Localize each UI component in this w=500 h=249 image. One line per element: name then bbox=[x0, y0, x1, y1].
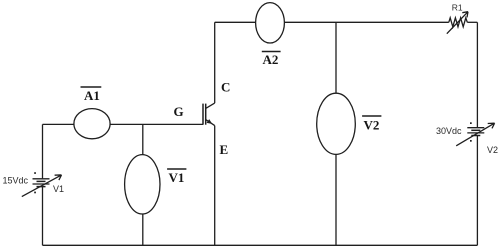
wire V1 branch vertical bbox=[142, 124, 144, 245]
transistor Q1 IGBT channel bar bbox=[205, 104, 207, 125]
label V2 overline bbox=[362, 115, 381, 117]
dc source V2 plus tick bbox=[470, 122, 472, 124]
dc source V2 plate long upper bbox=[467, 127, 484, 129]
svg-text:15Vdc: 15Vdc bbox=[3, 176, 29, 186]
wire left horizontal / gate feed bbox=[43, 123, 204, 125]
svg-text:V1: V1 bbox=[53, 184, 64, 194]
dc source V1 plate long lower bbox=[33, 183, 50, 185]
dc source V2 minus tick bbox=[470, 140, 472, 142]
dc source V2 plate short upper bbox=[471, 129, 480, 131]
svg-text:G: G bbox=[174, 104, 184, 119]
wire top bus right segment bbox=[467, 21, 477, 23]
wire bottom bus bbox=[43, 244, 478, 246]
dc source V2 variability arrow bbox=[456, 123, 494, 146]
voltmeter V1 body bbox=[125, 155, 160, 214]
svg-text:A2: A2 bbox=[263, 52, 279, 67]
transistor Q1 collector diagonal bbox=[206, 103, 215, 108]
svg-text:E: E bbox=[220, 142, 229, 157]
label V1 overline bbox=[167, 168, 186, 170]
wire right vertical lower bbox=[476, 136, 478, 245]
ammeter A2 body bbox=[256, 3, 285, 43]
svg-text:30Vdc: 30Vdc bbox=[436, 126, 462, 136]
resistor R1 variability arrow bbox=[447, 12, 468, 34]
dc source V1 plate short lower bbox=[37, 186, 46, 188]
wire top bus left segment bbox=[215, 21, 449, 23]
svg-text:R1: R1 bbox=[452, 3, 463, 13]
dc source V2 plate long lower bbox=[467, 132, 484, 134]
svg-text:V2: V2 bbox=[364, 117, 380, 132]
svg-text:A1: A1 bbox=[84, 88, 100, 103]
wire left vertical upper bbox=[42, 124, 44, 178]
dc source V1 variability arrow bbox=[22, 175, 62, 197]
label A1 overline bbox=[81, 86, 102, 88]
transistor Q1 IGBT gate bar bbox=[202, 104, 204, 125]
dc source V1 plate long upper bbox=[33, 178, 50, 180]
wire left vertical lower bbox=[42, 187, 44, 245]
dc source V1 plate short upper bbox=[37, 180, 46, 182]
ammeter A1 body bbox=[74, 109, 110, 139]
transistor Q1 emitter arrowhead bbox=[207, 119, 213, 124]
transistor Q1 emitter diagonal bbox=[206, 120, 215, 126]
wire right vertical upper bbox=[476, 22, 478, 127]
wire collector vertical bbox=[214, 22, 216, 103]
wire V2 branch vertical bbox=[335, 22, 337, 245]
voltmeter V2 body bbox=[317, 93, 356, 154]
dc source V2 plate short lower bbox=[471, 135, 480, 137]
resistor R1 zigzag bbox=[449, 18, 468, 27]
dc source V1 plus tick bbox=[34, 172, 36, 174]
svg-text:C: C bbox=[221, 79, 230, 94]
wire emitter vertical bbox=[214, 126, 216, 246]
svg-text:V2: V2 bbox=[487, 145, 498, 155]
svg-text:V1: V1 bbox=[169, 170, 185, 185]
label A2 overline bbox=[262, 51, 281, 53]
dc source V1 minus tick bbox=[34, 192, 36, 194]
